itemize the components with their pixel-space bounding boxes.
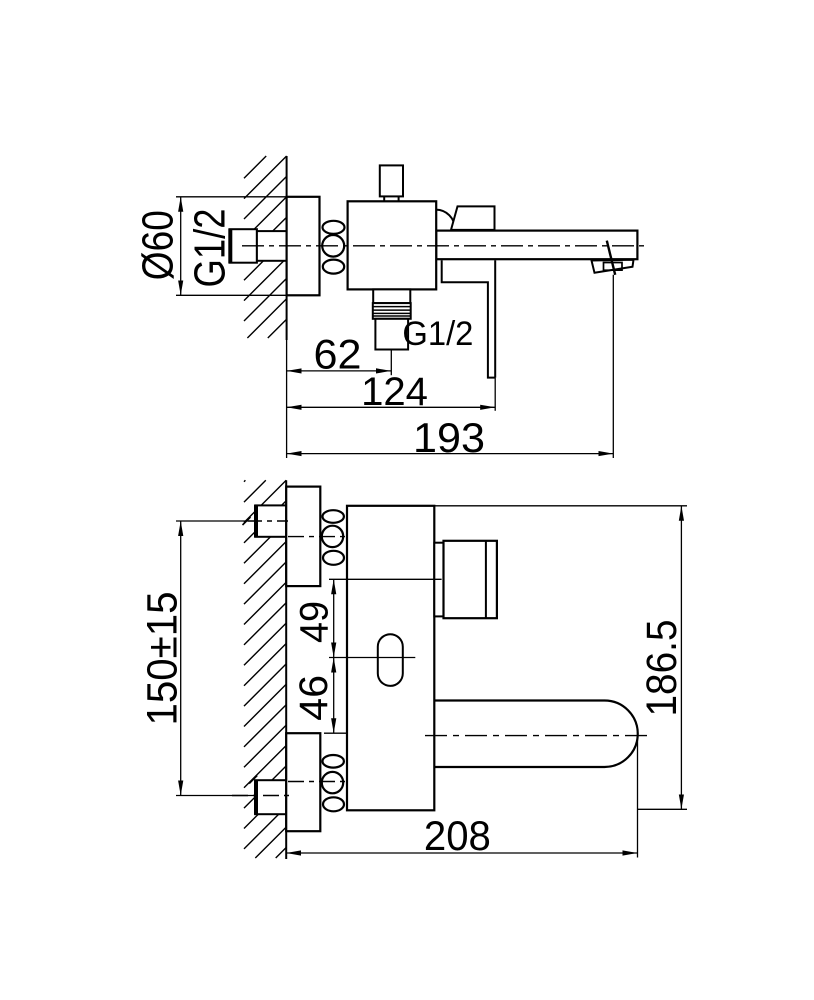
svg-text:Ø60: Ø60 bbox=[133, 210, 182, 280]
spout tip outlet bbox=[592, 260, 634, 273]
centerline (side view) bbox=[242, 245, 647, 247]
bottom shower outlet: G1/2 nipple bbox=[375, 319, 408, 350]
handle lever (side view) bbox=[451, 206, 495, 230]
handle hub strip (front view) bbox=[434, 543, 443, 617]
dimension Ø60 bbox=[180, 197, 182, 295]
49/46 middle extension line through oval bbox=[329, 657, 415, 659]
mixer body (front view) bbox=[347, 506, 434, 811]
svg-text:G1/2: G1/2 bbox=[402, 315, 473, 353]
aerator diagonal mark bbox=[607, 241, 615, 275]
wall supply pipe, main section (side view) bbox=[257, 231, 287, 261]
dimension 124 bbox=[287, 406, 496, 408]
46 bottom extension line bbox=[324, 732, 346, 734]
extension line for 124 bbox=[494, 378, 496, 411]
connection nut ellipses (side view) bbox=[323, 221, 345, 234]
150±15 extension lines bbox=[176, 520, 255, 522]
186.5 extension line top (body top edge prolonged) bbox=[434, 505, 687, 507]
diverter knob on top (side view) bbox=[380, 165, 403, 196]
upper escutcheon (front view) bbox=[286, 487, 320, 586]
wall line (front view) bbox=[285, 480, 287, 859]
lower connection nut (front view) bbox=[323, 755, 344, 768]
svg-text:150±15: 150±15 bbox=[138, 592, 186, 726]
lower faucet-inlet centerline bbox=[288, 781, 350, 783]
lower wall-pipe centerline bbox=[232, 795, 289, 797]
spout (side view) bbox=[436, 231, 637, 260]
extension line for 193 bbox=[612, 275, 614, 458]
wall hatching (front view) bbox=[244, 480, 286, 858]
extension line for 62 bbox=[390, 350, 392, 376]
dimension 150±15 bbox=[180, 521, 182, 796]
bottom shower outlet: ribbed nut bbox=[373, 303, 411, 319]
49 top extension line bbox=[329, 578, 442, 580]
screw hole oval (front view) bbox=[378, 634, 403, 686]
208 right extension line bbox=[637, 737, 639, 858]
svg-text:186.5: 186.5 bbox=[638, 620, 686, 717]
svg-text:208: 208 bbox=[424, 812, 491, 859]
spout (front view) bbox=[434, 701, 637, 768]
dimension 46 bbox=[333, 658, 335, 734]
wall hatching (side view) bbox=[244, 156, 287, 338]
dimension 49 bbox=[333, 579, 335, 657]
wall extension line down to dimension lines bbox=[286, 340, 288, 458]
escutcheon flange Ø60 (side view) bbox=[287, 197, 320, 295]
handle pivot arc bbox=[436, 210, 455, 229]
lower escutcheon (front view) bbox=[286, 733, 320, 831]
upper faucet-inlet centerline bbox=[288, 536, 350, 538]
dimension 208 bbox=[286, 852, 637, 854]
dimension 193 bbox=[287, 453, 614, 455]
upper connection nut (front view) bbox=[323, 510, 344, 523]
dimension 62 bbox=[287, 370, 391, 372]
lower supply pipe (front view) bbox=[255, 780, 286, 814]
svg-text:124: 124 bbox=[361, 370, 428, 414]
oblique tick lower bbox=[249, 776, 257, 784]
svg-text:62: 62 bbox=[314, 331, 362, 378]
wall line (side view) bbox=[286, 156, 288, 340]
upper supply pipe (front view) bbox=[255, 505, 286, 536]
186.5 extension line bottom bbox=[638, 808, 687, 810]
oblique tick upper bbox=[243, 517, 251, 525]
spout centerline (front view) bbox=[425, 735, 649, 737]
handle dial (front view) bbox=[444, 541, 497, 618]
wall supply pipe, threaded end (side view) bbox=[230, 229, 257, 263]
svg-text:49: 49 bbox=[293, 601, 337, 643]
Ø60 extension lines bbox=[176, 196, 292, 198]
svg-text:G1/2: G1/2 bbox=[186, 209, 235, 288]
bottom shower outlet: upper collar bbox=[373, 289, 410, 303]
mixer body (side view) bbox=[348, 201, 437, 289]
upper wall-pipe centerline bbox=[248, 520, 288, 522]
dimension 186.5 bbox=[680, 506, 682, 810]
svg-text:46: 46 bbox=[292, 675, 336, 721]
knob neck bbox=[383, 196, 385, 201]
svg-text:193: 193 bbox=[413, 414, 485, 461]
handle bar below spout bbox=[442, 260, 496, 377]
